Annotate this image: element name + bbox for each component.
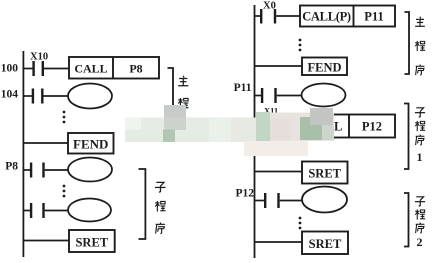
text 程 sub2 (415, 209, 425, 219)
svg-text:100: 100 (1, 63, 19, 75)
svg-text:CALL(P): CALL(P) (302, 10, 351, 24)
text 序 sub2 (416, 223, 425, 234)
ellipsis dots right lower (299, 217, 302, 230)
svg-text:P12: P12 (235, 188, 254, 200)
svg-text:FEND: FEND (307, 61, 341, 75)
coil ellipse P11 rung (302, 84, 346, 107)
instruction box CALL P8 (69, 57, 159, 79)
brace subroutine 1 (404, 104, 409, 170)
wire to FEND (24, 142, 68, 144)
wire to FEND right (255, 65, 302, 67)
contact X11 rung (partly hidden) (255, 118, 301, 133)
wire to SRET 2 (255, 241, 302, 243)
text 子 sub2 (415, 197, 425, 206)
svg-text:104: 104 (1, 89, 19, 101)
svg-text:P11: P11 (364, 10, 383, 24)
text 程 left sub (155, 201, 165, 212)
instruction box SRET 1 (302, 162, 348, 184)
brace subroutine left (139, 169, 146, 239)
left power rail (22, 51, 24, 257)
svg-text:FEND: FEND (73, 136, 108, 151)
text 序 left (under watermark) (179, 119, 188, 130)
instruction box SRET 2 (302, 232, 348, 255)
contact X0 (255, 9, 300, 24)
coil ellipse rung 104 (68, 84, 112, 109)
text 序 sub1 (416, 135, 425, 146)
brace main program left (168, 68, 174, 132)
contact P12 rung (255, 193, 302, 208)
svg-text:P11: P11 (234, 82, 252, 94)
svg-text:SRET: SRET (309, 237, 342, 251)
text 程 left (178, 98, 188, 109)
coil ellipse rung P8 (68, 158, 112, 182)
contact rung P8 (24, 163, 68, 178)
svg-text:X10: X10 (30, 52, 48, 63)
wire to SRET 1 (255, 171, 302, 173)
instruction box CALL P12 (301, 115, 396, 138)
contact P11 rung (255, 88, 302, 103)
brace main program right (405, 12, 410, 74)
svg-text:SRET: SRET (75, 236, 108, 250)
brace subroutine 2 (404, 193, 409, 247)
instruction box FEND (68, 133, 114, 154)
svg-text:P8: P8 (5, 161, 18, 173)
text 序 right (416, 65, 425, 76)
svg-text:1: 1 (417, 150, 423, 164)
watermark mosaic band (125, 105, 334, 156)
ellipsis dots right upper (299, 39, 302, 52)
instruction box FEND right (302, 58, 347, 76)
text 子 sub1 (415, 108, 425, 117)
text 序 left sub (156, 223, 165, 234)
text 子 left (155, 182, 166, 192)
coil ellipse P12 rung (302, 187, 347, 213)
ellipsis dots left lower (63, 185, 66, 198)
text 主 right (415, 17, 425, 27)
contact X10 (24, 61, 69, 76)
text 主 left (178, 76, 188, 86)
contact rung 104 (24, 89, 68, 104)
contact rung 4 (24, 203, 68, 218)
svg-text:CALL: CALL (74, 61, 107, 75)
coil ellipse rung 4 (68, 199, 111, 222)
svg-text:SRET: SRET (308, 167, 341, 181)
text 程 sub1 (415, 121, 425, 131)
ellipsis dots left upper (63, 111, 66, 124)
right power rail (254, 5, 256, 258)
instruction box CALL(P) P11 (300, 6, 395, 27)
instruction box SRET (69, 230, 115, 252)
svg-text:2: 2 (417, 235, 423, 249)
wire to SRET (24, 240, 69, 242)
svg-text:P8: P8 (129, 61, 142, 75)
svg-text:P12: P12 (362, 120, 382, 134)
text 程 right (415, 41, 425, 51)
